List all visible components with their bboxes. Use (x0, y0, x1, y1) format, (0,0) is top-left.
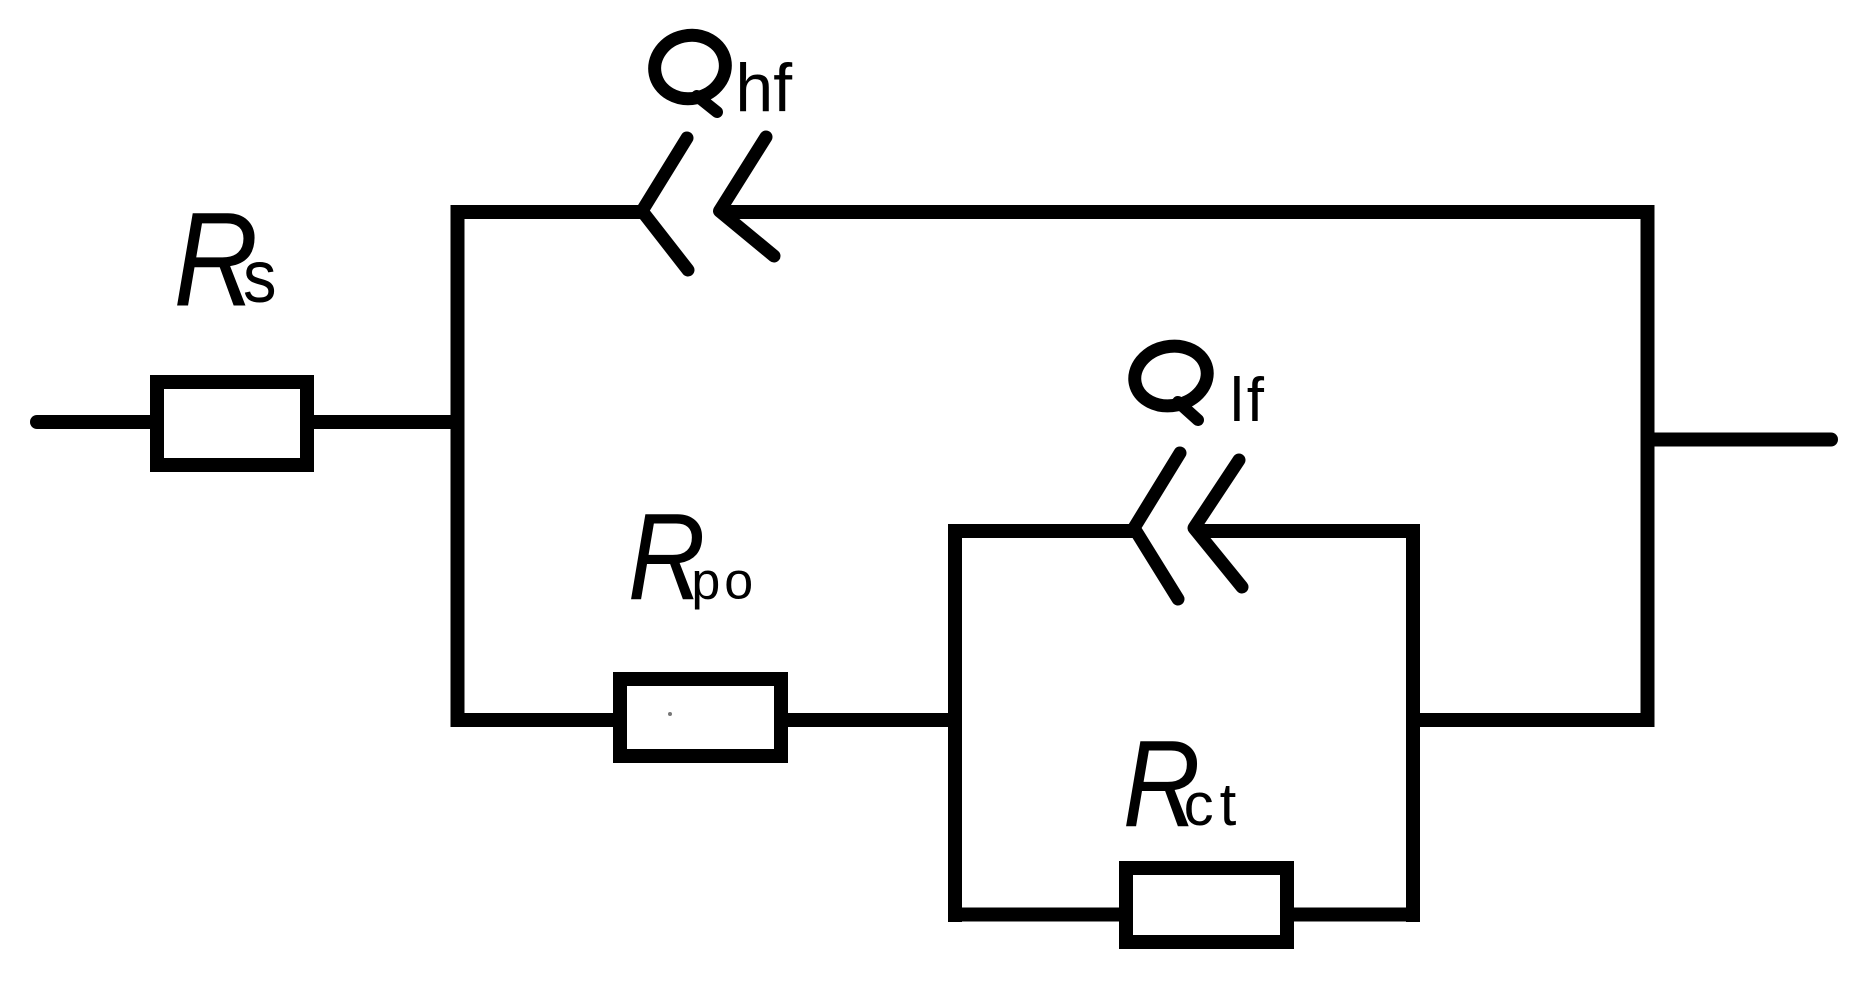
wire: outer top, right segment (720, 205, 1655, 219)
label Rct (1123, 714, 1242, 853)
wire: inner top, left segment (948, 524, 1134, 538)
CPE Q_lf chevron 1 (1134, 453, 1180, 599)
speck inside Rpo (668, 712, 672, 716)
CPE Q_hf chevron 1 (642, 138, 688, 270)
label Q_lf (1129, 340, 1267, 435)
wire: Rs to outer node (307, 415, 464, 429)
wire: outer loop right vertical (1641, 205, 1655, 727)
svg-text:lf: lf (1230, 366, 1267, 435)
CPE Q_lf chevron 2 (1194, 460, 1242, 587)
wire: outer top, left segment (451, 205, 643, 219)
label Rs (174, 184, 277, 334)
wire: inner bottom, left segment (948, 908, 1126, 922)
label Q_hf (649, 29, 792, 126)
wire: inner loop to outer right vertical (1406, 713, 1654, 727)
wire: left input terminal (37, 415, 160, 429)
wire: inner loop right vertical (1406, 524, 1420, 922)
label Rpo (628, 487, 757, 626)
wire: right output terminal (1654, 433, 1831, 447)
CPE Q_hf chevron 2 (720, 137, 775, 256)
svg-text:ct: ct (1184, 771, 1243, 838)
wire: bottom branch, node to Rpo (451, 713, 621, 727)
svg-text:hf: hf (735, 50, 792, 126)
svg-text:s: s (243, 236, 277, 319)
resistor Rct (1126, 868, 1287, 942)
wire: inner top, right segment (1194, 524, 1420, 538)
resistor Rpo (620, 679, 781, 756)
wire: outer loop left vertical (451, 205, 465, 727)
wire: inner loop left vertical (948, 524, 962, 922)
svg-text:po: po (691, 553, 757, 611)
wire: Rpo to inner loop (781, 713, 962, 727)
wire: inner bottom, right segment (1287, 908, 1420, 922)
resistor Rs (157, 382, 307, 465)
